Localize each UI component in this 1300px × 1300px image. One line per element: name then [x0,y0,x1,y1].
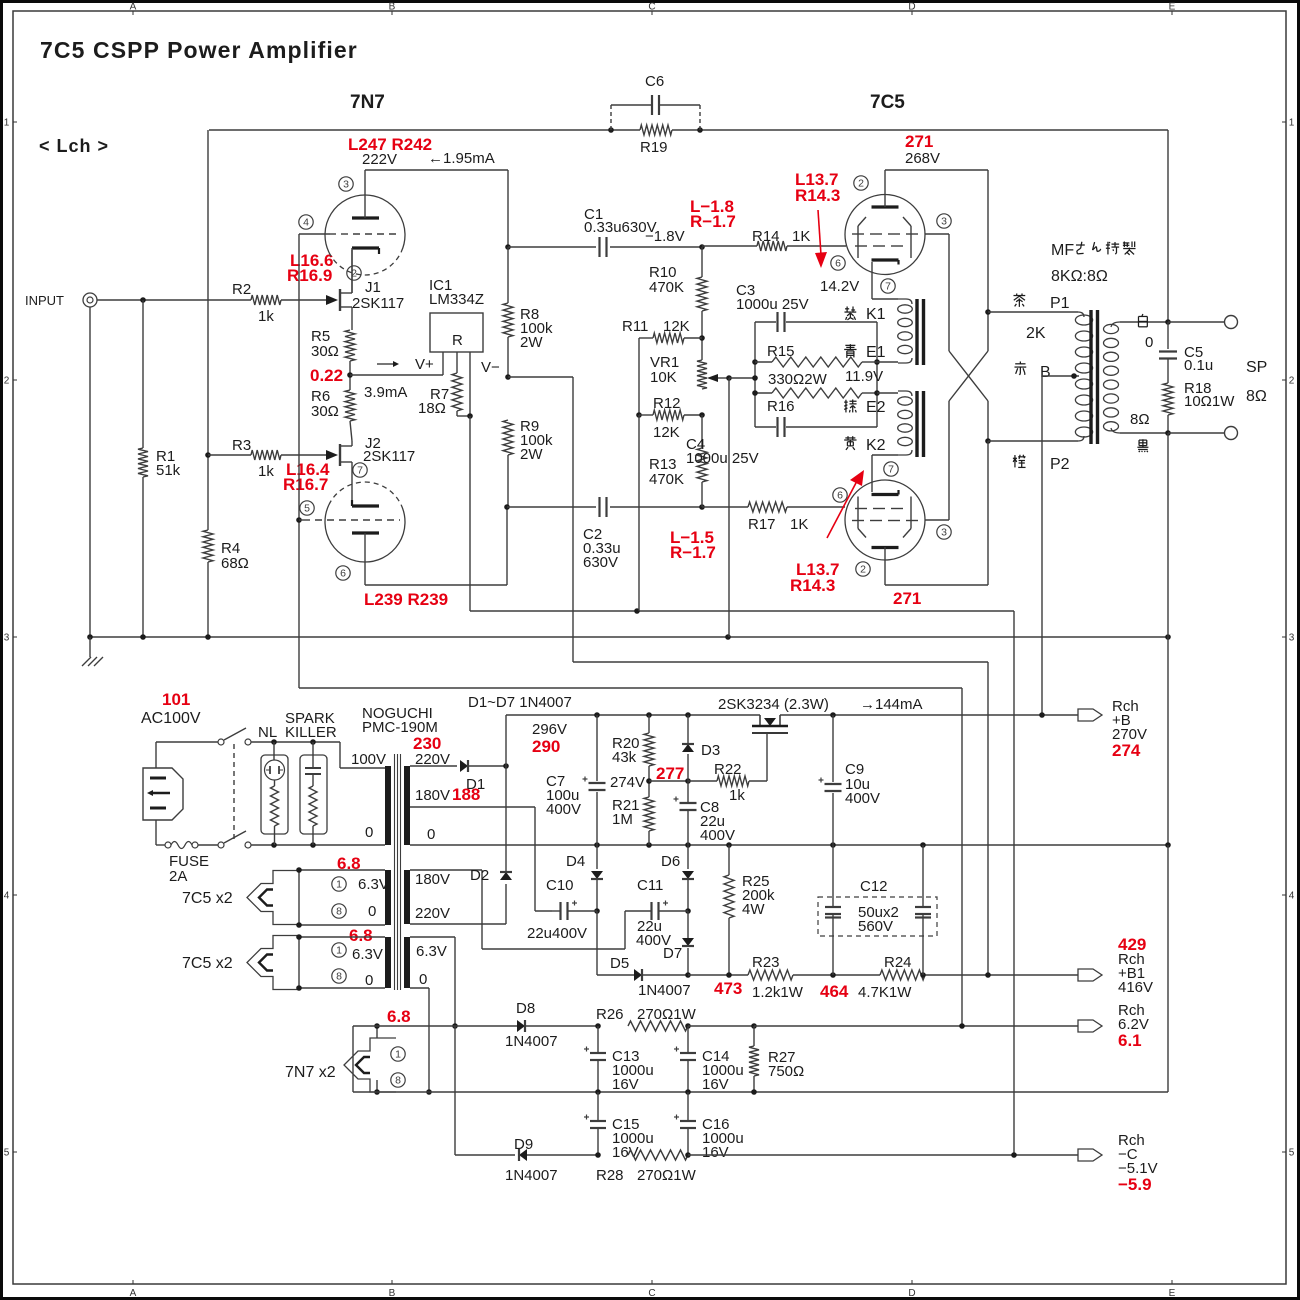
junction B1 drop [985,972,991,978]
resistor R23 [748,954,804,1001]
wire ground bus [90,636,1168,638]
resistor R5 [311,328,355,361]
pin 8 heater3 [391,1073,405,1087]
svg-text:290: 290 [532,737,560,756]
wire R23 to C12 [793,974,880,976]
junction C14 top [685,1023,691,1029]
inductor E2 K2 winding [898,391,913,455]
meas L-1.5 [670,528,714,547]
wire E1 line [877,361,898,363]
svg-text:1M: 1M [612,811,633,828]
wire C6 stub left dashed [610,105,612,130]
wire input line to R2 [143,299,251,301]
svg-text:1: 1 [4,118,10,129]
svg-text:1: 1 [395,1049,401,1061]
resistor R12 [639,395,702,441]
svg-text:< Lch >: < Lch > [39,136,109,156]
wire D1 out [468,765,506,767]
wire plate lead lower 7N7 [364,533,366,585]
wire upper plate riser [987,170,989,351]
svg-text:220V: 220V [415,905,450,922]
label PMC-190M [362,719,438,736]
junction C12a bottom [830,972,836,978]
switch power bottom [218,831,251,848]
pin 4 label upper 7N7 [299,215,313,229]
junction D1 node [503,763,509,769]
junction NL bottom [271,842,277,848]
junction ground R1 [140,634,146,640]
ground symbol [82,637,103,666]
svg-text:2: 2 [4,376,10,387]
meas 6.8 heater3 [387,1007,411,1026]
wire C10 to D4 [568,910,597,912]
wire upper 7C5 plate line [885,169,988,171]
svg-text:R3: R3 [232,437,251,454]
label 180V tap2 [415,871,450,888]
svg-text:1.2k1W: 1.2k1W [752,984,804,1001]
label 1.95mA arrow [428,150,495,167]
svg-text:L239 R239: L239 R239 [364,590,448,609]
wire net right rail [876,322,878,427]
wire switch bottom to xfmr [251,844,385,846]
svg-text:750Ω: 750Ω [768,1063,804,1080]
meas L13.7 lower [796,560,839,579]
arrow V+ current [377,361,399,367]
junction VR1 wiper node [726,375,732,381]
meas R14.3 lower [790,576,835,595]
svg-text:51k: 51k [156,462,181,479]
svg-text:R26: R26 [596,1006,624,1023]
wire R24 to +B1 [925,974,1078,976]
wire D7 column [687,911,689,975]
svg-text:7N7 x2: 7N7 x2 [285,1064,336,1081]
svg-text:R16.7: R16.7 [283,475,328,494]
heater box 7N7 [285,1026,396,1092]
capacitor C9 [819,761,881,807]
junction ground right rail [1165,634,1171,640]
junction B1 feed node [505,374,511,380]
wire cross X upper-right to lower-left [949,351,988,401]
svg-text:V−: V− [481,359,500,376]
label 14.2V [820,278,859,295]
svg-text:1K: 1K [790,516,808,533]
junction heater2 bottom [296,985,302,991]
ruler column label C bottom [648,1280,655,1299]
wire D3 column [687,715,689,781]
svg-text:3: 3 [1289,633,1295,644]
svg-text:B: B [389,1288,396,1299]
svg-text:D1~D7 1N4007: D1~D7 1N4007 [468,694,572,711]
label 274V [610,774,645,791]
wire primary top corner [339,742,341,768]
ruler column label E bottom [1169,1280,1176,1299]
svg-text:268V: 268V [905,150,940,167]
svg-text:18Ω: 18Ω [418,400,446,417]
svg-text:5: 5 [304,503,310,515]
label 8ohm tap [1130,411,1150,428]
heater box 7C5 no2 [182,936,385,990]
svg-text:3: 3 [941,216,947,228]
wire V- feed line [470,610,1014,612]
svg-text:7C5: 7C5 [870,92,905,113]
resistor R26 [596,1006,697,1031]
junction 0 C8 [685,842,691,848]
resistor R10 [649,247,707,311]
svg-text:A: A [130,1288,137,1299]
wire C16 column [687,1092,689,1155]
meas R16.7 [283,475,328,494]
svg-text:C10: C10 [546,877,574,894]
svg-text:270Ω1W: 270Ω1W [637,1006,697,1023]
label V- [481,359,500,376]
wire heater line to D8 [455,1025,517,1027]
diode D1 [460,760,485,793]
svg-text:11.9V: 11.9V [845,368,883,385]
diode D7 [663,938,694,962]
ruler column label C top [648,2,655,16]
svg-text:16V: 16V [702,1144,729,1161]
svg-text:470K: 470K [649,279,684,296]
pin 6 label lower 7C5 [833,488,847,502]
switch power top [218,728,251,745]
wire D9 line left [455,1154,515,1156]
wire C6 stub right dashed [699,105,701,130]
label P1 [1050,295,1070,312]
wire B1 feed right [508,376,573,378]
winding 6.3V right [404,937,410,988]
junction R10 top [699,244,705,250]
svg-text:5: 5 [4,1148,10,1159]
svg-text:277: 277 [656,764,684,783]
wire plate lower across [365,584,507,586]
label heater1 0 [368,903,376,920]
pin 2 label lower 7C5 [856,562,870,576]
resistor R20 [612,715,654,766]
svg-text:C: C [648,1288,655,1299]
terminal Rch 6.2V [1078,1002,1149,1050]
svg-text:R22: R22 [714,761,742,778]
svg-text:D: D [908,2,915,13]
svg-text:LM334Z: LM334Z [429,291,484,308]
fuse F1 [165,842,209,886]
pin 2 label upper 7C5 [854,176,868,190]
junction C11 node [685,908,691,914]
wire C13 column [597,1026,599,1092]
junction R16 right [874,390,880,396]
junction w3 heater line [452,1023,458,1029]
wire Lch box left edge upper [207,130,209,455]
wire VR1 wiper down [728,378,730,637]
svg-text:2SK117: 2SK117 [352,295,404,312]
wire grid bias down [961,688,963,1026]
svg-text:SP: SP [1246,359,1267,376]
svg-text:43k: 43k [612,749,637,766]
wire C2 to R13 [610,506,702,508]
svg-text:B: B [389,2,396,13]
ruler row label 2 left [4,376,17,387]
meas 230 [413,734,441,753]
wire 220V tap2 [410,923,506,925]
wire R11 lead [639,337,653,339]
svg-text:4: 4 [303,217,309,229]
svg-text:2SK3234 (2.3W): 2SK3234 (2.3W) [718,696,829,713]
terminal Rch -C [1078,1132,1158,1194]
ruler column label B bottom [389,1280,396,1299]
svg-text:6.8: 6.8 [349,926,373,945]
svg-text:1k: 1k [258,308,274,325]
wire C6 right lead [660,104,700,106]
capacitor C5 [1159,344,1213,374]
label 296V [532,721,567,738]
tube V2 7C5 upper [845,195,925,275]
label 8Kohm 8ohm [1051,268,1108,285]
svg-text:180V: 180V [415,787,450,804]
ruler column label E top [1169,2,1176,16]
junction SK bottom [310,842,316,848]
wire input ground column [89,307,91,637]
inductor OPT primary [1075,312,1092,441]
wire B tap riser [1041,376,1043,715]
svg-text:400V: 400V [700,827,735,844]
wire D9 to C15 [527,1154,598,1156]
svg-text:D8: D8 [516,1000,535,1017]
svg-text:16V: 16V [702,1076,729,1093]
junction R11 node [699,335,705,341]
svg-text:7: 7 [357,465,363,477]
meas 101 [162,690,190,709]
svg-text:R14.3: R14.3 [790,576,835,595]
winding heater2 left [385,937,391,988]
core K1E1 winding [917,299,924,365]
wire C3 right lead [786,321,877,323]
junction input/R1 [140,297,146,303]
label HV 0 [427,826,435,843]
connector SP minus terminal [1225,427,1238,440]
neon lamp NL [258,724,288,845]
label 330ohm2W [768,371,828,388]
capacitor C4 [686,417,785,467]
svg-text:2: 2 [860,564,866,576]
wire rail to C5 [1167,322,1169,349]
label MF san tokusei [1051,241,1136,259]
wire E2 line [877,392,898,394]
svg-text:3: 3 [941,527,947,539]
wire rail bottom riser [1167,845,1169,1092]
svg-text:NL: NL [258,724,277,741]
wire C6 left lead [611,104,651,106]
svg-text:7: 7 [885,281,891,293]
label 2K [1026,325,1046,342]
wire grid bias line [299,687,962,689]
transistor J1 2SK117 [326,250,404,330]
svg-text:→144mA: →144mA [860,696,923,713]
svg-text:464: 464 [820,982,849,1001]
pin 3 label upper 7N7 [339,177,353,191]
meas R-1.7 lower [670,543,716,562]
svg-text:R−1.7: R−1.7 [690,212,736,231]
meas 6.8 w2 [349,926,373,945]
resistor R11 [622,318,702,343]
ruler column label B top [389,2,396,16]
svg-text:R14.3: R14.3 [795,186,840,205]
label 6.3V w2 [352,946,383,963]
meas 6.8 heater1 [337,854,361,873]
junction C13 bottom [595,1089,601,1095]
svg-text:R2: R2 [232,281,251,298]
junction heater1 top [296,867,302,873]
arrow meas upper 7C5 [815,210,827,268]
diode D6 [661,853,694,879]
capacitor C12b [915,907,931,914]
svg-text:222V: 222V [362,151,397,168]
capacitor C6 [645,73,664,115]
meas L-1.8 [690,197,734,216]
label kuro [1137,439,1148,452]
junction HV Btap [1039,712,1045,718]
core OPT [1091,310,1098,444]
svg-text:3.9mA: 3.9mA [364,384,407,401]
label D1-D7 [468,694,572,711]
transistor Q1 2SK3234 [752,715,788,781]
junction 7N7 heater bottom [374,1089,380,1095]
junction R25 bottom [726,972,732,978]
junction R27 bottom [751,1089,757,1095]
junction -C feed [1011,1152,1017,1158]
svg-text:470K: 470K [649,471,684,488]
wire SP minus [1168,432,1225,434]
wire VR1 wiper to R15R16 [729,377,755,379]
label 222V [362,151,397,168]
ruler row label 4 right [1282,891,1295,902]
label heater1 63 [358,876,389,893]
junction 0.22 node [347,372,353,378]
svg-text:6: 6 [837,490,843,502]
svg-text:D5: D5 [610,955,629,972]
svg-text:0: 0 [419,971,427,988]
diode D5 [610,955,691,999]
pin 2 label upper 7N7 [347,266,361,280]
wire R22 to gate [749,780,767,782]
ruler row label 1 right [1282,118,1295,129]
svg-text:D: D [908,1288,915,1299]
wire R2 to J1 gate [281,299,326,301]
svg-text:2A: 2A [169,868,187,885]
capacitor C10 polarity [572,901,577,906]
svg-text:P1: P1 [1050,295,1070,312]
wire net left rail [754,322,756,427]
wire top rail right segment [672,129,1168,131]
svg-text:4W: 4W [742,901,765,918]
junction 0 C9 [830,842,836,848]
svg-text:0: 0 [368,903,376,920]
junction heater1 bottom [296,922,302,928]
svg-text:6.3V: 6.3V [352,946,383,963]
resistor R8 [503,247,553,377]
junction C1 node [505,244,511,250]
svg-text:271: 271 [905,132,933,151]
capacitor C1 [584,206,657,257]
label dai [1013,455,1026,468]
wire fuse to switch [198,844,218,846]
connector INPUT jack [83,293,97,307]
resistor R2 [232,281,281,325]
label 0 w2 [365,972,373,989]
wire C2 line [507,506,596,508]
meas 473 [714,979,742,998]
label E2 [866,399,886,416]
svg-text:6: 6 [835,258,841,270]
svg-text:D3: D3 [701,742,720,759]
pin 1 heater1 [332,877,346,891]
resistor R1 [138,448,181,479]
svg-text:270Ω1W: 270Ω1W [637,1167,697,1184]
resistor R16 [755,388,877,415]
svg-text:101: 101 [162,690,190,709]
svg-text:6.8: 6.8 [387,1007,411,1026]
svg-text:C12: C12 [860,878,888,895]
wire Lch box left edge lower [207,455,209,516]
wire 180V tap2 [410,869,482,871]
winding heater1 left [385,870,391,925]
capacitor C7 [546,773,606,818]
junction C15 bottom [595,1152,601,1158]
svg-text:V+: V+ [415,356,434,373]
junction HV C7 [594,712,600,718]
connector SP plus terminal [1225,316,1238,329]
wire D5 line to R23 [688,974,748,976]
svg-text:4: 4 [1289,891,1295,902]
svg-text:400V: 400V [546,801,581,818]
wire 6.3V w3 top [410,936,455,938]
svg-text:D9: D9 [514,1136,533,1153]
junction SK top [310,739,316,745]
resistor R7 [418,373,462,417]
svg-text:0: 0 [427,826,435,843]
meas R14.3 upper [795,186,840,205]
resistor R6 [311,388,355,421]
svg-text:R23: R23 [752,954,780,971]
wire C4 left lead [755,426,776,428]
arrow meas lower 7C5 [827,470,864,538]
junction NL top [271,739,277,745]
wire right rail lower [1167,637,1169,845]
wire R10 to VR1 [701,311,703,360]
wire lower 7C5 plate lead [884,547,886,585]
Lch channel label [39,136,109,156]
wire secondary top [1120,321,1168,323]
pin 8 heater1 [332,904,346,918]
svg-text:30Ω: 30Ω [311,343,339,360]
wire R3 to J2 gate [281,454,326,456]
transformer T1 core [395,754,401,990]
wire 180V to C10 [535,910,552,912]
wire pin5 stub [299,519,304,521]
junction R27 top [751,1023,757,1029]
ruler column label D bottom [908,1280,915,1299]
svg-text:100V: 100V [351,751,386,768]
svg-text:6.1: 6.1 [1118,1031,1142,1050]
transistor J2 2SK117 [326,435,415,472]
wire cross X upper-left to lower-right [949,351,988,401]
spark killer [285,710,337,845]
meas 290 [532,737,560,756]
svg-text:K2: K2 [866,437,886,454]
junction C13 top [595,1023,601,1029]
heater box 7C5 no1 [182,870,385,925]
label K2 [866,437,886,454]
wire C1 line [508,246,596,248]
label K1 [866,306,886,323]
